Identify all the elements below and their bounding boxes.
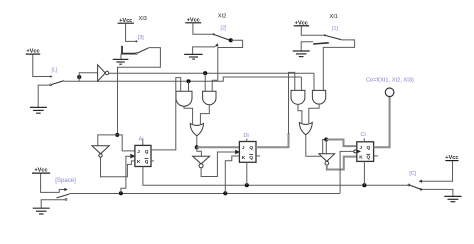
wire A4 output jog to OR O2 right input: [309, 104, 319, 123]
wire Ci clear stem: [363, 161, 365, 185]
svg-text:XI3: XI3: [139, 16, 147, 22]
svg-text:Q: Q: [249, 155, 253, 160]
wire O2 output down right and up to node: [306, 135, 327, 156]
wire node down to inverter U4 input: [325, 140, 327, 154]
wire V1 to switch S1 top throw: [33, 55, 51, 77]
wire XI2 net : pole right, down, left, down to AND A2 right input: [212, 40, 242, 91]
wire Ai preset stub: [142, 139, 144, 146]
switch S6 key=[C]: [408, 184, 421, 189]
wire O1 node to inverter U3 input: [197, 147, 202, 156]
wire Di Q to riser (thick): [256, 133, 289, 147]
node on wire L feeding AND A1 right input: [186, 79, 190, 91]
power source V5 +Vcc (switch Space): [32, 168, 50, 174]
ground GND3: [184, 54, 202, 59]
wire U2 output zigzag to Ai K input: [101, 157, 135, 177]
ground GND1: [30, 107, 47, 113]
wire node to Ci J input (thick): [326, 140, 357, 147]
wire Ai Q up and over to AND A1 left input: [151, 78, 181, 150]
node Di K on bus CLK: [223, 191, 227, 195]
inverter U4: [319, 154, 335, 165]
svg-text:[1]: [1]: [332, 26, 338, 32]
svg-text:Q: Q: [367, 155, 371, 160]
wire Ci clock riser from bus CLK: [340, 151, 354, 193]
AND gate A2: [203, 91, 216, 104]
wire S4 bottom throw to ground: [301, 42, 313, 51]
wire A1 output jog to OR O1 left input: [184, 106, 193, 124]
wire V6 to switch S6 top throw: [421, 161, 453, 181]
wire Di K riser: [225, 156, 239, 193]
OR gate O2: [299, 122, 312, 134]
switch S5 key=[Space]: [57, 194, 70, 200]
power source V3 +Vcc (switch XI2): [185, 17, 201, 23]
wire L : switch S1 pole going right: [64, 80, 221, 82]
wire S5 bottom throw to ground: [41, 200, 65, 208]
node O1 output: [195, 145, 199, 149]
svg-text:Ci: Ci: [361, 132, 366, 138]
bus CLK : switch S5 pole going right: [70, 193, 341, 195]
svg-text:Q: Q: [145, 149, 149, 154]
switch S4 key=[1]: [324, 34, 341, 39]
wire A2 output jog to OR O1 right input: [200, 105, 209, 124]
wire V4 to switch S4 top throw: [301, 26, 324, 35]
svg-text:[C]: [C]: [409, 171, 416, 177]
wire Ai clock riser: [121, 156, 131, 193]
wire U3 output to Di clock: [201, 152, 235, 177]
wire A3 output jog to OR O2 left input: [298, 105, 302, 124]
svg-text:[L]: [L]: [52, 68, 58, 74]
svg-text:XI2: XI2: [218, 14, 226, 20]
wire Ai clear to bus CLR: [143, 167, 247, 186]
inverter U3: [193, 156, 210, 168]
switch S2 key=[3]: [135, 40, 148, 54]
wire S6 bottom throw to ground: [421, 189, 453, 196]
node XI2 pole: [229, 38, 233, 42]
wire Ai Qbar stub: [151, 160, 154, 162]
node on wire Lbar feeding AND A2 left input: [203, 71, 207, 91]
node Di clear on bus CLR: [245, 183, 249, 187]
wire Ci preset stub: [363, 138, 365, 142]
wire XI3 net : pole right, down, left, down to node: [118, 48, 161, 135]
svg-text:Ai: Ai: [139, 137, 144, 143]
node on wire L feeding inverter U1: [77, 73, 97, 82]
AND gate A1: [176, 91, 192, 106]
wire Di preset stub: [246, 139, 248, 142]
inverter U1: [98, 65, 109, 81]
wire XI3 node to Ai J input: [117, 135, 135, 151]
svg-text:Q: Q: [367, 145, 371, 150]
svg-text:[2]: [2]: [221, 26, 227, 32]
node XI3 branch: [115, 133, 119, 137]
switch S1 key=[L]: [50, 76, 64, 86]
contact arrow S3 bottom throw: [214, 43, 218, 46]
wire O1 output down to node: [196, 136, 198, 148]
wire S1 bottom throw to ground: [38, 85, 50, 107]
node Ci clear on bus CLR: [362, 183, 366, 187]
wire Lbar drop into AND A4 left input: [313, 73, 315, 90]
svg-text:J: J: [137, 149, 140, 154]
svg-text:Co=f(XI1, XI2, XI3): Co=f(XI1, XI2, XI3): [366, 77, 414, 83]
contact arrow S6 top throw: [419, 180, 422, 183]
svg-text:Q: Q: [249, 145, 253, 150]
wire L step up at XI2 riser crossing: [220, 77, 301, 81]
AND gate A3: [291, 90, 305, 104]
AND gate A4: [312, 90, 325, 104]
wire V5 to switch S5 top throw: [41, 174, 66, 193]
switch S3 key=[2]: [213, 33, 230, 40]
wire S3 bottom throw to ground: [193, 47, 215, 54]
svg-text:J: J: [242, 145, 245, 150]
contact arrow S4 bottom throw: [313, 43, 329, 44]
power source V6 +Vcc (switch C): [445, 155, 458, 161]
svg-text:Di: Di: [244, 133, 249, 139]
svg-text:[3]: [3]: [138, 35, 144, 41]
svg-text:XI1: XI1: [330, 14, 338, 20]
bus CLR continuing right: [247, 184, 409, 186]
flip-flop U6 Di: [235, 142, 256, 163]
svg-text:[Space]: [Space]: [55, 177, 76, 184]
wire Ci Q to probe (thick): [374, 97, 390, 148]
power source V2 +Vcc (switch XI3): [118, 18, 134, 24]
ground GND4: [293, 51, 310, 57]
wire Di Q riser up and over to AND A3 left input: [289, 72, 295, 134]
wire Lbar : inverter U1 output going right: [109, 72, 314, 74]
wire V2 to switch S2 top throw: [126, 24, 136, 42]
wire Di clear stem: [246, 162, 248, 185]
wire U4 output to Ci K input (thick): [327, 157, 357, 170]
wire Di Qbar stub: [256, 155, 260, 157]
flip-flop U7 Ci: [354, 142, 374, 162]
wire L drop into AND A3 right input: [300, 77, 302, 91]
flip-flop U5 Ai: [130, 145, 151, 166]
wire Ci Qbar stub: [374, 155, 378, 157]
wire XI1 net : pole right, down, left, down to AND A4 right input: [323, 40, 354, 91]
ground GND2: [113, 54, 129, 65]
OR gate O1: [190, 123, 203, 135]
node Ai clock on bus CLK: [119, 191, 123, 195]
svg-text:K: K: [359, 155, 363, 160]
node Ci J: [324, 137, 328, 141]
power source V4 +Vcc (switch XI1): [294, 20, 310, 26]
inverter U2: [92, 146, 109, 157]
svg-text:Q: Q: [145, 159, 149, 164]
ground GND6: [444, 196, 461, 201]
wire S2 bottom throw (thick): [122, 46, 136, 54]
ground GND5: [33, 208, 50, 214]
wire V3 to switch S3 top throw: [193, 23, 213, 34]
power source V1 +Vcc (switch L): [26, 49, 41, 55]
svg-text:J: J: [360, 145, 363, 150]
probe P1 output terminal: [385, 88, 394, 97]
wire O1 node to Di J input: [197, 146, 240, 148]
wire XI3 node to inverter U2 input: [98, 135, 118, 146]
